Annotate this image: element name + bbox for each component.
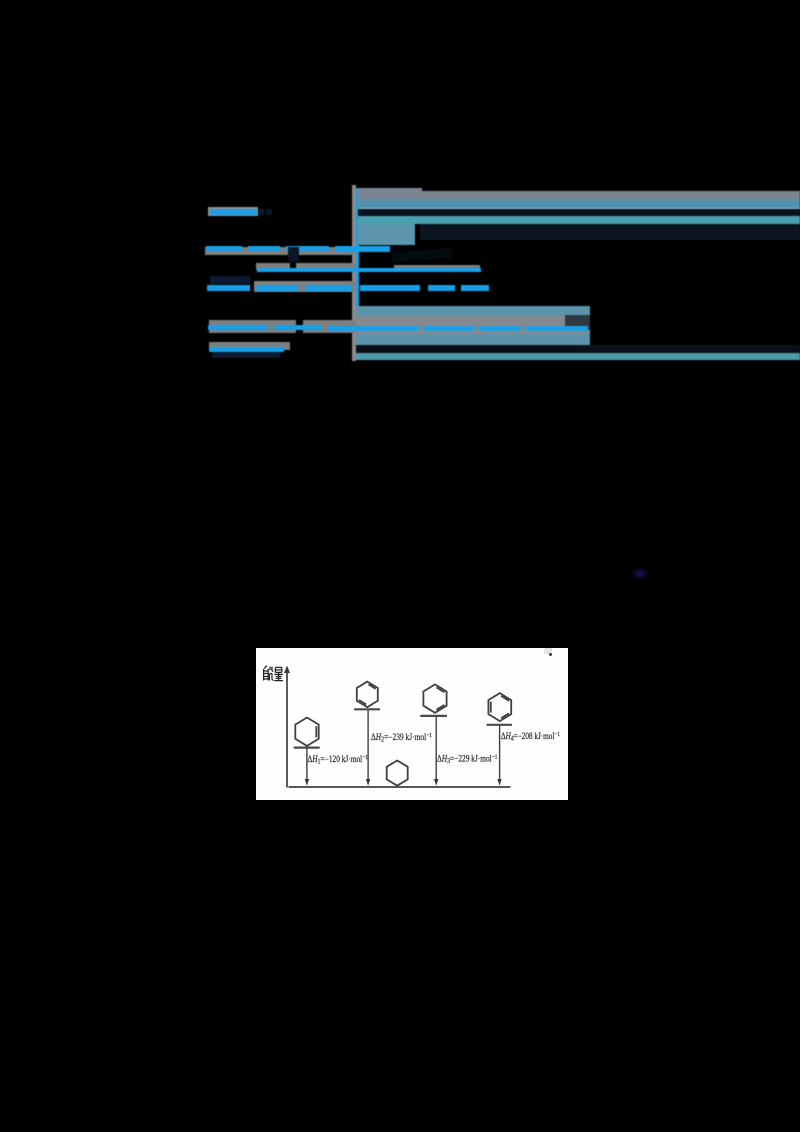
hexagon cyclohexadiene-2 [357, 682, 378, 708]
line L3 gray band right [394, 265, 480, 269]
hexagon cyclohexene [295, 718, 318, 746]
svg-text:ΔH4=−208 kJ·mol−1: ΔH4=−208 kJ·mol−1 [501, 731, 560, 743]
line L2 blue dashes [206, 246, 242, 251]
line L6 navy text hint [212, 352, 280, 358]
line L2 dark check mark [288, 247, 299, 262]
bottom teal band [356, 353, 800, 360]
line L3 blue line [257, 268, 481, 272]
platform 1 [294, 746, 320, 748]
double bond bottom-right [436, 705, 444, 710]
platform 2 [354, 708, 380, 710]
bottom navy band [356, 345, 800, 353]
faint navy blob [634, 569, 646, 578]
platform 3 [420, 715, 447, 717]
line L5 blue dashes [208, 325, 268, 330]
y axis arrowhead [284, 666, 290, 674]
double bond top-right [369, 684, 376, 688]
chart gray tab [544, 648, 552, 654]
block L5 right steel blue [356, 306, 590, 350]
chart tab dot [549, 653, 552, 656]
energy diagram svg [256, 648, 568, 800]
hexagon cyclohexadiene-3 [423, 684, 446, 712]
cyclohexene double bond [315, 726, 317, 737]
line L2 gray band [205, 247, 356, 255]
hexagon benzene [488, 693, 511, 721]
chart white panel [256, 648, 568, 800]
line L1 blue fill [210, 209, 257, 215]
svg-text:ΔH1=−120 kJ·mol−1: ΔH1=−120 kJ·mol−1 [308, 754, 369, 766]
steel blue block left under R2 [358, 224, 415, 245]
svg-text:ΔH3=−229 kJ·mol−1: ΔH3=−229 kJ·mol−1 [437, 754, 498, 766]
y axis [286, 668, 288, 788]
dark scribble right of rule [392, 248, 453, 262]
double bond top-right [436, 687, 444, 692]
platform 4 [487, 724, 512, 726]
navy region under R2 [420, 224, 800, 240]
benzene double bond left [490, 702, 492, 713]
line L3 gray gap [290, 263, 296, 270]
double bond bottom-left [359, 700, 366, 704]
block L5 gray band lower [356, 330, 590, 334]
svg-text:ΔH2=−239 kJ·mol−1: ΔH2=−239 kJ·mol−1 [371, 732, 432, 744]
label energy (nengliang) glyph blocks [264, 666, 283, 681]
line L5 gray band left [209, 320, 356, 333]
band navy under R1 [358, 209, 800, 216]
block L5 gray band [356, 316, 590, 326]
block L5 dark right end [565, 315, 590, 334]
arrow 3 [435, 717, 437, 782]
baseline [289, 786, 511, 788]
line L1 teal tail marks [259, 209, 264, 215]
arrow 4 [499, 726, 501, 782]
line L3 gray band left [256, 263, 356, 270]
vertical blue rule [356, 188, 359, 353]
benzene double bond top-right [501, 696, 509, 701]
band R1 left lip [358, 188, 422, 193]
vertical gray rule [352, 185, 356, 361]
line L4 navy block [210, 276, 250, 284]
arrow 2 [367, 710, 369, 781]
hexagon cyclohexane [387, 761, 408, 786]
line L4 blue dashes [207, 285, 250, 291]
line L5 gray gap [296, 320, 303, 333]
line L6 blue line [209, 347, 284, 352]
arrow 1 [306, 749, 308, 782]
line L1 gray box [208, 207, 258, 216]
line L4 gray band [254, 281, 356, 292]
line L6 gray band [209, 342, 290, 350]
band R2 teal [358, 216, 800, 224]
band R1 gray-blue gradient [358, 191, 800, 209]
top section group [0, 0, 800, 600]
benzene double bond bottom-right [501, 713, 509, 718]
